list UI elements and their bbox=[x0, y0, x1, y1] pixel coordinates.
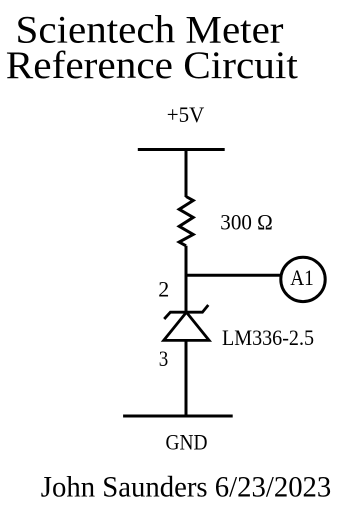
wire resistor to node 2 and diode bbox=[185, 246, 188, 312]
zener diode cathode bar LM336-2.5 bbox=[164, 305, 208, 319]
wire node to ammeter A1 bbox=[186, 274, 281, 277]
svg-text:+5V: +5V bbox=[167, 102, 205, 127]
wire diode to ground rail bbox=[185, 340, 188, 416]
svg-text:2: 2 bbox=[158, 276, 169, 301]
svg-text:LM336-2.5: LM336-2.5 bbox=[222, 325, 314, 350]
resistor R1 300 ohm bbox=[179, 197, 193, 246]
+5V supply rail bbox=[138, 148, 225, 151]
ammeter A1 bbox=[281, 257, 325, 301]
ground rail bbox=[123, 415, 233, 418]
svg-text:John Saunders 6/23/2023: John Saunders 6/23/2023 bbox=[41, 471, 332, 503]
svg-text:300 Ω: 300 Ω bbox=[220, 209, 272, 234]
svg-text:GND: GND bbox=[166, 430, 208, 455]
wire rail to resistor R1 bbox=[185, 150, 188, 198]
svg-text:3: 3 bbox=[159, 346, 169, 371]
svg-text:A1: A1 bbox=[290, 265, 314, 290]
zener diode body triangle bbox=[164, 312, 209, 340]
svg-text:Reference Circuit: Reference Circuit bbox=[6, 44, 298, 87]
